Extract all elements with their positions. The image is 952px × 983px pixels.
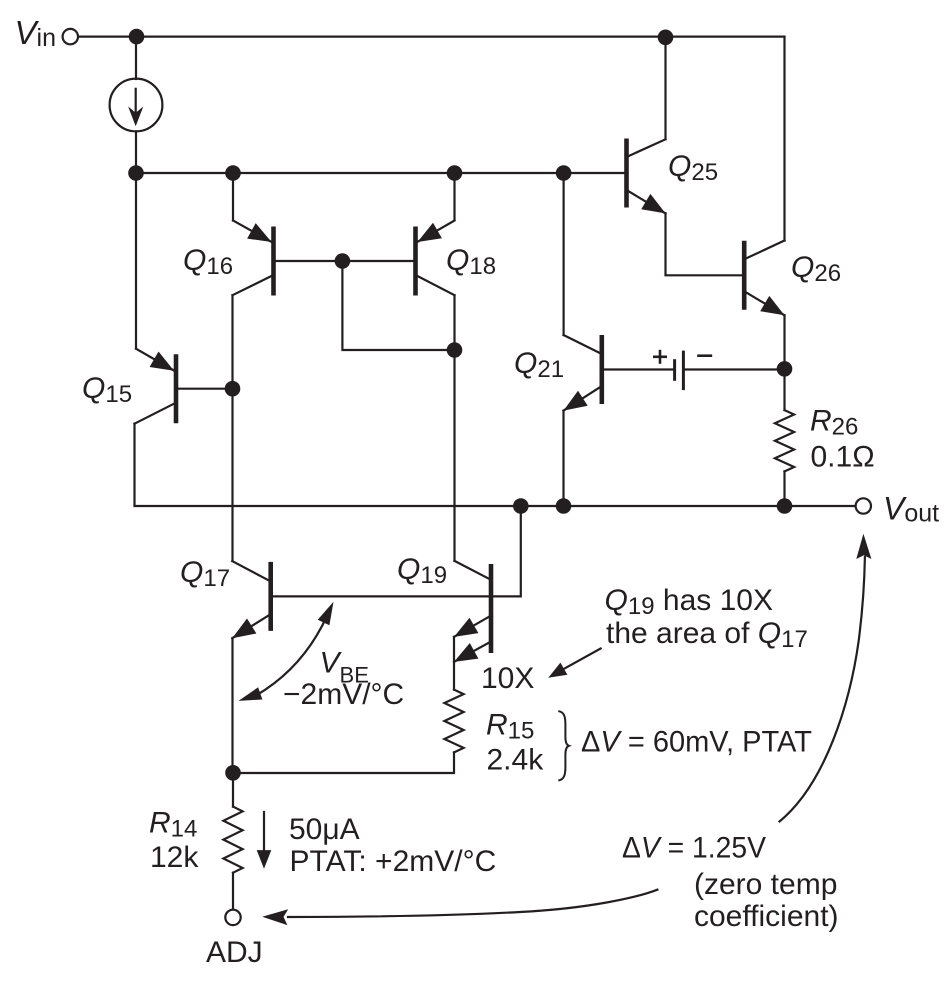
svg-text:2.4k: 2.4k bbox=[487, 744, 545, 777]
svg-text:ADJ: ADJ bbox=[206, 936, 263, 969]
svg-text:(zero temp: (zero temp bbox=[694, 868, 837, 901]
svg-text:10X: 10X bbox=[481, 662, 534, 695]
svg-text:the area of Q17: the area of Q17 bbox=[606, 617, 808, 653]
svg-text:ΔV = 1.25V: ΔV = 1.25V bbox=[622, 832, 766, 865]
svg-text:50μA: 50μA bbox=[289, 813, 360, 846]
svg-text:0.1Ω: 0.1Ω bbox=[811, 441, 875, 474]
svg-text:12k: 12k bbox=[150, 841, 199, 874]
svg-text:PTAT: +2mV/°C: PTAT: +2mV/°C bbox=[290, 845, 497, 878]
svg-text:ΔV = 60mV, PTAT: ΔV = 60mV, PTAT bbox=[581, 726, 812, 759]
svg-text:coefficient): coefficient) bbox=[694, 900, 839, 933]
svg-text:−2mV/°C: −2mV/°C bbox=[283, 678, 404, 711]
